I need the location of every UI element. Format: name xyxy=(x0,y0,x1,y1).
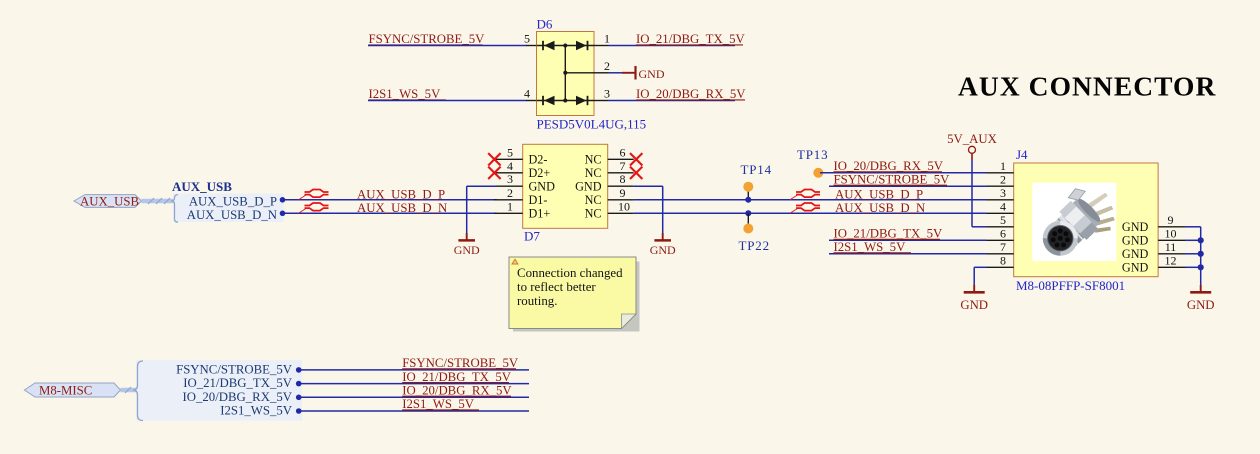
svg-text:NC: NC xyxy=(585,207,602,221)
svg-text:I2S1_WS_5V: I2S1_WS_5V xyxy=(220,404,293,418)
net label IO_21/DBG_TX_5V xyxy=(636,32,746,46)
ground GND (below J4 pin8) xyxy=(960,285,988,312)
title AUX CONNECTOR xyxy=(958,71,1216,102)
harness entry AUX_USB box xyxy=(171,179,284,222)
wire D7 pin9 to J4 pin3 xyxy=(634,199,987,201)
differential pair directive (left, D_P) xyxy=(299,190,329,200)
J4 pin 2 xyxy=(987,173,1014,187)
D7 pin 9 xyxy=(585,186,634,207)
svg-text:D1+: D1+ xyxy=(529,207,551,221)
harness port AUX_USB xyxy=(74,194,142,208)
D6 pin 2 xyxy=(594,59,610,73)
D7 pin 6 xyxy=(585,145,634,166)
junction J4 pin11 xyxy=(1198,251,1204,257)
net label IO_21/DBG_TX_5V (J4 pin6) xyxy=(834,227,944,241)
harness signal IO_20/DBG_RX_5V xyxy=(183,390,302,404)
net label I2S1_WS_5V (D6 pin4) xyxy=(369,87,447,101)
front face xyxy=(1043,221,1078,256)
D6 diode d (bottom-right) xyxy=(576,96,588,105)
svg-text:GND: GND xyxy=(650,243,676,257)
wire FSYNC/STROBE_5V (M8-MISC) xyxy=(299,369,529,371)
J4 pin 9 xyxy=(1122,213,1185,234)
power port GND (D6 pin2, bar style) xyxy=(622,66,665,81)
svg-text:GND: GND xyxy=(639,67,665,81)
svg-text:IO_21/DBG_TX_5V: IO_21/DBG_TX_5V xyxy=(402,370,512,384)
test point TP22 xyxy=(739,210,770,253)
harness cable AUX_USB xyxy=(142,198,175,204)
junction J4 pin12 xyxy=(1198,264,1204,270)
svg-text:GND: GND xyxy=(1122,247,1149,261)
svg-text:FSYNC/STROBE_5V: FSYNC/STROBE_5V xyxy=(176,362,293,376)
svg-text:routing.: routing. xyxy=(517,294,557,308)
svg-text:GND: GND xyxy=(529,180,556,194)
gold pins (back right) xyxy=(1088,193,1108,208)
D6 diode c (bottom-left) xyxy=(543,96,555,105)
svg-text:3: 3 xyxy=(1000,186,1006,200)
harness port M8-MISC xyxy=(24,383,120,397)
svg-text:GND: GND xyxy=(1122,220,1149,234)
svg-text:D1-: D1- xyxy=(529,193,548,207)
svg-text:9: 9 xyxy=(1168,213,1174,227)
svg-text:TP13: TP13 xyxy=(797,147,828,162)
power port 5V_AUX xyxy=(947,132,998,160)
J4 pin 8 xyxy=(987,254,1014,268)
svg-text:GND: GND xyxy=(575,180,602,194)
net label FSYNC/STROBE_5V (J4 pin2) xyxy=(834,173,951,187)
svg-text:NC: NC xyxy=(585,166,602,180)
barrel / threads xyxy=(1045,193,1106,253)
svg-text:IO_21/DBG_TX_5V: IO_21/DBG_TX_5V xyxy=(183,376,293,390)
svg-text:IO_21/DBG_TX_5V: IO_21/DBG_TX_5V xyxy=(636,32,746,46)
svg-text:AUX_USB_D_N: AUX_USB_D_N xyxy=(357,201,447,215)
wire I2S1_WS_5V (M8-MISC) xyxy=(299,410,529,412)
differential pair directive (right, D_N) xyxy=(790,203,820,213)
harness signal AUX_USB_D_N xyxy=(187,208,286,222)
D7 pin 7 xyxy=(585,159,634,180)
no connect X on D7 pin 5 xyxy=(488,153,500,165)
svg-text:D2-: D2- xyxy=(529,153,548,167)
J4 pin 5 xyxy=(987,213,1014,227)
J4 pin 11 xyxy=(1122,240,1185,261)
wire 5V_AUX to J4 pin5 xyxy=(972,160,987,227)
svg-text:AUX_USB: AUX_USB xyxy=(172,179,232,194)
svg-text:4: 4 xyxy=(507,159,513,173)
wire D7 pin3 to ground xyxy=(467,186,497,233)
svg-text:3: 3 xyxy=(604,87,610,101)
wire to J4 pin2 xyxy=(829,185,987,187)
svg-text:5: 5 xyxy=(507,145,513,159)
no connect X on D7 pin 7 xyxy=(630,167,642,179)
ESD diode array D6 body xyxy=(537,17,647,132)
wire I2S1_WS_5V to D6 pin 4 xyxy=(368,100,527,102)
wire J4 pin8 to ground xyxy=(974,267,986,285)
net label FSYNC/STROBE_5V (D6 pin5) xyxy=(369,32,486,46)
svg-text:7: 7 xyxy=(1000,240,1006,254)
svg-text:2: 2 xyxy=(604,59,610,73)
svg-text:GND: GND xyxy=(1122,233,1149,247)
svg-text:NC: NC xyxy=(585,193,602,207)
harness signal I2S1_WS_5V xyxy=(220,404,301,418)
pin holes xyxy=(1058,228,1063,233)
svg-text:AUX CONNECTOR: AUX CONNECTOR xyxy=(958,71,1216,102)
J4 connector photo xyxy=(1032,183,1116,261)
ground GND (right bus) xyxy=(1187,285,1215,312)
D7 pin 4 xyxy=(494,159,550,180)
net label I2S1_WS_5V (M8-MISC) xyxy=(402,397,479,411)
no connect X on D7 pin 6 xyxy=(630,153,642,165)
svg-text:M8-MISC: M8-MISC xyxy=(39,383,92,397)
svg-text:2: 2 xyxy=(1000,173,1006,187)
svg-text:AUX_USB_D_P: AUX_USB_D_P xyxy=(357,187,445,201)
svg-text:11: 11 xyxy=(1165,240,1177,254)
svg-text:12: 12 xyxy=(1165,254,1177,268)
D7 pin 10 xyxy=(585,199,634,220)
differential pair directive (left, D_N) xyxy=(299,203,329,213)
wire IO_21/DBG_TX_5V (M8-MISC) xyxy=(299,383,529,385)
svg-text:GND: GND xyxy=(1122,260,1149,274)
D6 pin 3 xyxy=(594,87,610,101)
wire IO_20/DBG_RX_5V (M8-MISC) xyxy=(299,396,529,398)
svg-text:AUX_USB_D_N: AUX_USB_D_N xyxy=(187,208,277,222)
D7 pin 3 xyxy=(494,172,555,193)
svg-text:10: 10 xyxy=(1165,227,1177,241)
net label IO_20/DBG_RX_5V xyxy=(636,87,746,101)
D6 internal wires xyxy=(537,44,595,103)
net label AUX_USB_D_P (J4 pin3) xyxy=(835,187,923,201)
svg-text:5: 5 xyxy=(1000,213,1006,227)
connector J4 body xyxy=(1014,147,1158,293)
wire D7 pin10 to J4 pin4 xyxy=(634,212,987,214)
svg-text:I2S1_WS_5V: I2S1_WS_5V xyxy=(402,397,475,411)
wire D6 pin3 to IO_20 xyxy=(609,100,736,102)
svg-text:D2+: D2+ xyxy=(529,166,551,180)
net label I2S1_WS_5V (J4 pin7) xyxy=(834,240,912,254)
svg-text:NC: NC xyxy=(585,153,602,167)
svg-text:1: 1 xyxy=(507,199,513,213)
svg-text:AUX_USB_D_N: AUX_USB_D_N xyxy=(835,201,925,215)
svg-text:6: 6 xyxy=(1000,227,1006,241)
svg-text:GND: GND xyxy=(454,243,480,257)
svg-text:IO_20/DBG_RX_5V: IO_20/DBG_RX_5V xyxy=(183,390,293,404)
wire FSYNC/STROBE_5V to D6 pin 5 xyxy=(368,45,527,47)
svg-text:I2S1_WS_5V: I2S1_WS_5V xyxy=(834,240,907,254)
ground GND (right of D7) xyxy=(650,233,676,257)
net label IO_20/DBG_RX_5V (J4 pin1) xyxy=(834,159,944,173)
net label AUX_USB_D_N (left) xyxy=(357,201,447,215)
harness signal AUX_USB_D_P xyxy=(189,195,285,209)
svg-text:FSYNC/STROBE_5V: FSYNC/STROBE_5V xyxy=(402,356,519,370)
net label IO_20/DBG_RX_5V (M8-MISC) xyxy=(402,384,512,398)
D6 pin 4 xyxy=(524,87,537,101)
harness entry M8-MISC box xyxy=(133,360,302,421)
svg-text:8: 8 xyxy=(620,172,626,186)
svg-text:IO_20/DBG_RX_5V: IO_20/DBG_RX_5V xyxy=(402,384,512,398)
svg-text:J4: J4 xyxy=(1016,147,1028,162)
svg-text:I2S1_WS_5V: I2S1_WS_5V xyxy=(369,87,442,101)
test point TP14 xyxy=(741,162,772,203)
svg-text:TP22: TP22 xyxy=(739,238,770,253)
svg-text:FSYNC/STROBE_5V: FSYNC/STROBE_5V xyxy=(834,173,951,187)
svg-text:GND: GND xyxy=(1187,298,1215,312)
junction J4 pin10 xyxy=(1198,237,1204,243)
svg-text:AUX_USB_D_P: AUX_USB_D_P xyxy=(835,187,923,201)
net label AUX_USB_D_N (J4 pin4) xyxy=(835,201,925,215)
svg-text:IO_20/DBG_RX_5V: IO_20/DBG_RX_5V xyxy=(636,87,746,101)
J4 pin 3 xyxy=(987,186,1014,200)
wire to J4 pin6 xyxy=(829,239,987,241)
harness signal FSYNC/STROBE_5V xyxy=(176,362,301,376)
wire AUX_USB_D_N (harness to D7 pin1) xyxy=(283,212,497,214)
wire D6 pin1 to IO_21 xyxy=(609,45,736,47)
D6 diode a (top-left) xyxy=(543,41,555,50)
note: connection changed xyxy=(509,257,640,332)
wire to J4 pin7 xyxy=(829,253,987,255)
J4 pin 12 xyxy=(1122,254,1185,275)
J4 pin 4 xyxy=(987,200,1014,214)
svg-text:1: 1 xyxy=(604,32,610,46)
svg-text:AUX_USB: AUX_USB xyxy=(80,194,139,208)
svg-text:FSYNC/STROBE_5V: FSYNC/STROBE_5V xyxy=(369,32,486,46)
harness signal IO_21/DBG_TX_5V xyxy=(183,376,301,390)
svg-text:4: 4 xyxy=(1000,200,1006,214)
wire AUX_USB_D_P (harness to D7 pin2) xyxy=(283,199,497,201)
ESD array D7 body xyxy=(523,144,608,243)
D7 pin 1 xyxy=(494,199,550,220)
no connect X on D7 pin 4 xyxy=(488,167,500,179)
svg-text:TP14: TP14 xyxy=(741,162,772,177)
svg-text:D7: D7 xyxy=(524,229,540,244)
svg-text:4: 4 xyxy=(524,87,530,101)
test point TP13 xyxy=(797,147,828,178)
svg-text:9: 9 xyxy=(620,186,626,200)
svg-text:D6: D6 xyxy=(537,17,553,32)
D6 diode b (top-right) xyxy=(576,41,588,50)
J4 pin 7 xyxy=(987,240,1014,254)
wire TP13 to J4 pin1 xyxy=(820,172,987,174)
J4 pin 1 xyxy=(987,159,1014,173)
svg-text:1: 1 xyxy=(1000,159,1006,173)
svg-text:2: 2 xyxy=(507,186,513,200)
wire J4 pins 9-12 ground bus xyxy=(1185,227,1201,285)
svg-text:7: 7 xyxy=(620,159,626,173)
harness cable M8-MISC xyxy=(121,387,137,393)
wire D6 pin2 to GND xyxy=(609,72,623,74)
D7 pin 2 xyxy=(494,186,547,207)
svg-text:10: 10 xyxy=(618,199,630,213)
J4 pin 6 xyxy=(987,227,1014,241)
differential pair directive (right, D_P) xyxy=(790,190,820,200)
svg-text:5: 5 xyxy=(524,32,530,46)
svg-text:Connection changed: Connection changed xyxy=(517,266,623,280)
net label FSYNC/STROBE_5V (M8-MISC) xyxy=(402,356,519,370)
D6 pin 1 xyxy=(594,32,610,46)
svg-text:6: 6 xyxy=(620,145,626,159)
svg-text:8: 8 xyxy=(1000,254,1006,268)
D7 pin 5 xyxy=(494,145,547,166)
svg-text:GND: GND xyxy=(960,298,988,312)
svg-text:to reflect better: to reflect better xyxy=(517,280,596,294)
wire D7 pin8 to ground xyxy=(634,186,663,233)
net label IO_21/DBG_TX_5V (M8-MISC) xyxy=(402,370,512,384)
metal tab top xyxy=(1068,189,1085,201)
net label AUX_USB_D_P (left) xyxy=(357,187,445,201)
D7 pin 8 xyxy=(575,172,634,193)
svg-text:IO_21/DBG_TX_5V: IO_21/DBG_TX_5V xyxy=(834,227,944,241)
svg-text:AUX_USB_D_P: AUX_USB_D_P xyxy=(189,195,277,209)
svg-text:5V_AUX: 5V_AUX xyxy=(947,132,998,146)
svg-text:PESD5V0L4UG,115: PESD5V0L4UG,115 xyxy=(537,117,647,132)
J4 pin 10 xyxy=(1122,227,1185,248)
ground GND (left of D7) xyxy=(454,233,480,257)
svg-text:3: 3 xyxy=(507,172,513,186)
svg-text:M8-08PFFP-SF8001: M8-08PFFP-SF8001 xyxy=(1016,278,1125,293)
svg-text:IO_20/DBG_RX_5V: IO_20/DBG_RX_5V xyxy=(834,159,944,173)
D6 pin 5 xyxy=(524,32,537,46)
